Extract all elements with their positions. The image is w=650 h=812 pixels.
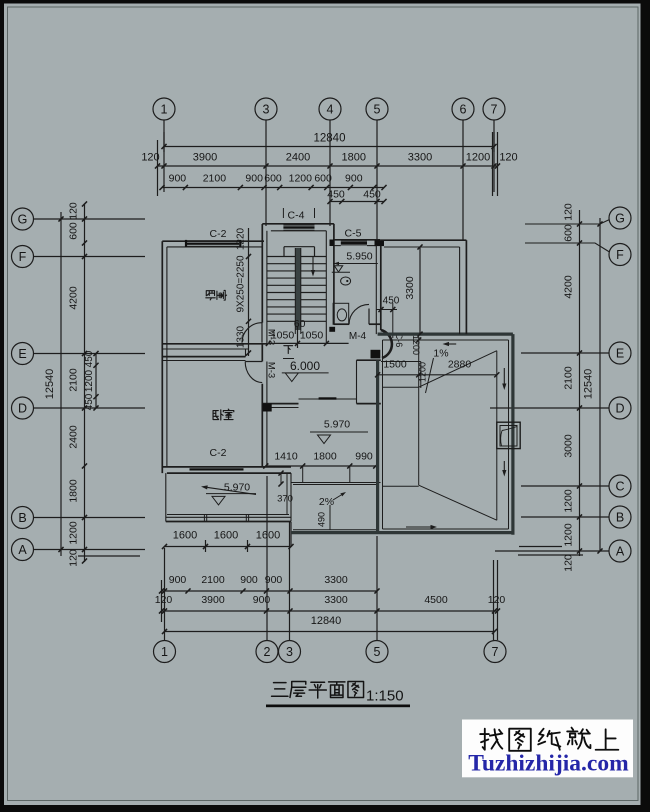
svg-text:1%: 1% bbox=[433, 348, 448, 360]
svg-text:990: 990 bbox=[355, 451, 373, 463]
svg-text:3000: 3000 bbox=[563, 434, 575, 458]
svg-text:B: B bbox=[616, 510, 624, 524]
svg-text:2400: 2400 bbox=[286, 152, 310, 164]
svg-text:1200: 1200 bbox=[289, 173, 313, 185]
svg-text:E: E bbox=[18, 347, 26, 361]
svg-text:F: F bbox=[19, 250, 27, 264]
svg-text:1800: 1800 bbox=[342, 152, 366, 164]
svg-text:2: 2 bbox=[264, 645, 271, 659]
svg-text:2100: 2100 bbox=[203, 173, 227, 185]
svg-text:C-2: C-2 bbox=[210, 447, 227, 459]
svg-text:3: 3 bbox=[263, 102, 270, 116]
svg-text:600: 600 bbox=[563, 224, 575, 242]
svg-text:450: 450 bbox=[84, 393, 95, 410]
svg-text:2%: 2% bbox=[319, 496, 334, 508]
svg-text:600: 600 bbox=[68, 222, 80, 240]
svg-text:1050: 1050 bbox=[300, 330, 324, 342]
svg-text:600: 600 bbox=[264, 173, 282, 185]
svg-text:450: 450 bbox=[84, 350, 95, 367]
svg-text:120: 120 bbox=[563, 203, 575, 221]
svg-text:D: D bbox=[615, 401, 624, 415]
svg-text:C-5: C-5 bbox=[345, 228, 362, 240]
svg-text:3300: 3300 bbox=[408, 152, 432, 164]
svg-text:1800: 1800 bbox=[68, 479, 80, 503]
svg-text:1200: 1200 bbox=[466, 152, 490, 164]
svg-text:6: 6 bbox=[460, 102, 467, 116]
svg-text:3300: 3300 bbox=[324, 594, 348, 606]
svg-text:M-3: M-3 bbox=[266, 362, 277, 378]
svg-text:G: G bbox=[615, 211, 625, 225]
svg-text:M-4: M-4 bbox=[349, 331, 367, 342]
svg-text:3: 3 bbox=[286, 645, 293, 659]
svg-text:450: 450 bbox=[363, 189, 381, 201]
svg-text:2100: 2100 bbox=[68, 368, 80, 392]
svg-text:1500: 1500 bbox=[383, 359, 407, 371]
svg-text:1: 1 bbox=[161, 102, 168, 116]
svg-text:900: 900 bbox=[265, 574, 283, 586]
svg-text:2100: 2100 bbox=[563, 366, 575, 390]
svg-text:1220: 1220 bbox=[236, 227, 247, 250]
svg-text:120: 120 bbox=[141, 152, 159, 164]
svg-text:900: 900 bbox=[169, 173, 187, 185]
svg-text:12840: 12840 bbox=[314, 133, 346, 145]
svg-text:1600: 1600 bbox=[256, 530, 280, 542]
svg-text:1050: 1050 bbox=[271, 330, 295, 342]
svg-text:9X250=2250: 9X250=2250 bbox=[236, 255, 247, 312]
svg-text:900: 900 bbox=[245, 173, 263, 185]
svg-text:2880: 2880 bbox=[448, 359, 472, 371]
svg-text:F: F bbox=[616, 248, 624, 262]
svg-text:1200: 1200 bbox=[563, 489, 575, 513]
svg-text:600: 600 bbox=[314, 173, 332, 185]
svg-text:2100: 2100 bbox=[201, 574, 225, 586]
svg-text:1200: 1200 bbox=[418, 362, 428, 382]
svg-text:4: 4 bbox=[327, 102, 334, 116]
svg-text:5: 5 bbox=[374, 645, 381, 659]
svg-text:120: 120 bbox=[563, 554, 575, 572]
svg-text:7: 7 bbox=[492, 645, 499, 659]
svg-text:1410: 1410 bbox=[274, 451, 298, 463]
svg-text:1600: 1600 bbox=[214, 530, 238, 542]
svg-text:120: 120 bbox=[68, 202, 80, 220]
svg-text:60: 60 bbox=[294, 318, 306, 330]
svg-text:450: 450 bbox=[383, 296, 400, 307]
svg-text:A: A bbox=[18, 543, 27, 557]
svg-text:5: 5 bbox=[374, 102, 381, 116]
svg-text:12840: 12840 bbox=[311, 615, 342, 627]
svg-text:7: 7 bbox=[491, 102, 498, 116]
svg-text:120: 120 bbox=[68, 549, 80, 567]
svg-text:900: 900 bbox=[169, 574, 187, 586]
svg-text:G: G bbox=[18, 212, 28, 226]
svg-text:2400: 2400 bbox=[68, 425, 80, 449]
svg-text:370: 370 bbox=[277, 494, 293, 505]
svg-text:B: B bbox=[18, 511, 26, 525]
svg-text:1200: 1200 bbox=[84, 369, 95, 392]
svg-text:1:150: 1:150 bbox=[366, 688, 404, 705]
svg-text:1600: 1600 bbox=[173, 530, 197, 542]
svg-text:C-2: C-2 bbox=[210, 228, 227, 240]
svg-text:3900: 3900 bbox=[201, 594, 225, 606]
svg-text:120: 120 bbox=[499, 152, 517, 164]
svg-text:C-4: C-4 bbox=[288, 210, 305, 222]
svg-text:5.970: 5.970 bbox=[324, 419, 350, 431]
svg-text:1800: 1800 bbox=[313, 451, 337, 463]
svg-text:900: 900 bbox=[345, 173, 363, 185]
svg-text:12540: 12540 bbox=[44, 369, 56, 400]
svg-text:D: D bbox=[18, 401, 27, 415]
svg-text:900: 900 bbox=[240, 574, 258, 586]
svg-text:6.000: 6.000 bbox=[290, 359, 320, 373]
svg-text:A: A bbox=[616, 544, 625, 558]
svg-text:4500: 4500 bbox=[424, 594, 448, 606]
svg-text:1: 1 bbox=[161, 645, 168, 659]
svg-text:1200: 1200 bbox=[68, 521, 80, 545]
svg-text:4200: 4200 bbox=[68, 286, 80, 310]
svg-text:Tuzhizhijia.com: Tuzhizhijia.com bbox=[468, 751, 629, 777]
svg-text:E: E bbox=[616, 346, 624, 360]
svg-text:4200: 4200 bbox=[563, 275, 575, 299]
svg-text:1200: 1200 bbox=[563, 523, 575, 547]
svg-text:1330: 1330 bbox=[236, 325, 247, 348]
svg-text:120: 120 bbox=[155, 594, 173, 606]
svg-text:5.950: 5.950 bbox=[346, 251, 372, 263]
svg-text:450: 450 bbox=[327, 189, 345, 201]
svg-text:3900: 3900 bbox=[193, 152, 217, 164]
svg-text:12540: 12540 bbox=[583, 369, 595, 400]
svg-text:3300: 3300 bbox=[324, 574, 348, 586]
svg-text:900: 900 bbox=[253, 594, 271, 606]
svg-text:3300: 3300 bbox=[404, 276, 416, 300]
svg-text:490: 490 bbox=[317, 512, 327, 527]
svg-text:1200: 1200 bbox=[411, 335, 421, 355]
svg-text:C: C bbox=[615, 479, 624, 493]
svg-text:120: 120 bbox=[488, 594, 506, 606]
